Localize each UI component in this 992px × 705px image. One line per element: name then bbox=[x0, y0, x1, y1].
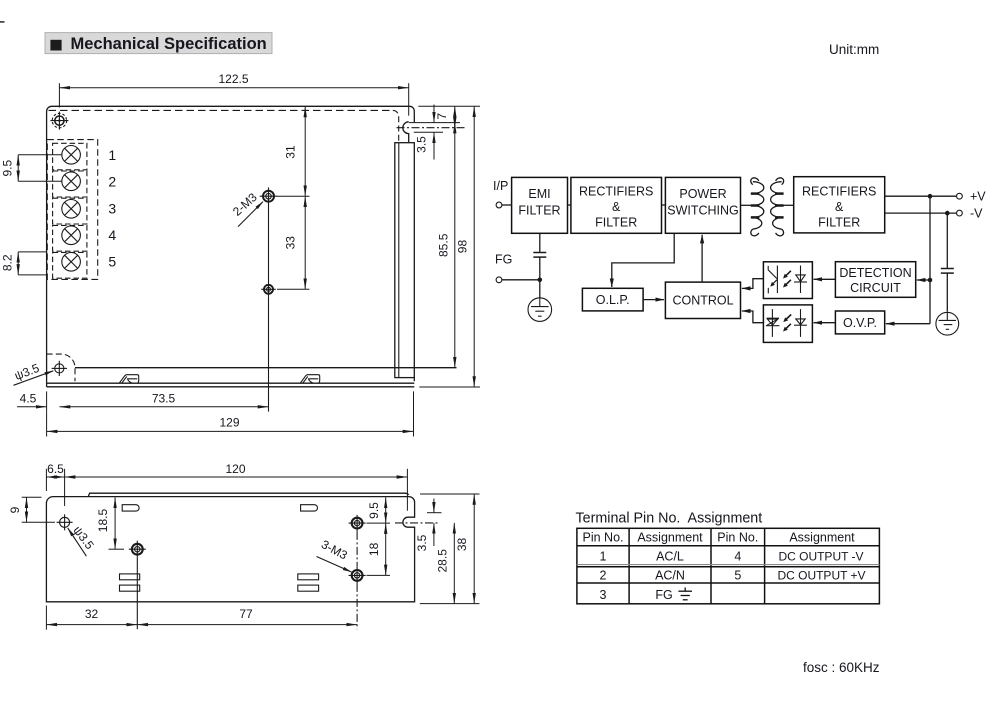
wire detection to opto1 bbox=[814, 278, 836, 280]
slot upper-right bbox=[301, 505, 318, 511]
right flange (top view) bbox=[395, 143, 415, 382]
svg-text:3: 3 bbox=[108, 200, 116, 216]
FG earth symbol in table bbox=[678, 588, 692, 600]
dim 6.5 bbox=[46, 462, 64, 506]
svg-text:CONTROL: CONTROL bbox=[672, 294, 733, 308]
svg-text:32: 32 bbox=[85, 607, 99, 621]
dim 32 bbox=[46, 606, 137, 630]
3-M3 label + leader bbox=[317, 537, 352, 572]
svg-text:18: 18 bbox=[367, 542, 381, 556]
svg-text:Assignment: Assignment bbox=[637, 531, 703, 545]
terminal block outer dashed bbox=[47, 140, 97, 280]
svg-text:FILTER: FILTER bbox=[595, 215, 637, 229]
svg-text:7: 7 bbox=[435, 113, 449, 120]
extension line below B1 bbox=[136, 558, 138, 630]
svg-text:98: 98 bbox=[456, 240, 470, 254]
svg-text:4: 4 bbox=[734, 549, 741, 563]
section header bar bbox=[45, 33, 272, 54]
wire +V output bbox=[885, 195, 957, 197]
wire OLP to CONTROL bbox=[643, 299, 664, 301]
ground symbol (FG) bbox=[528, 298, 552, 322]
svg-text:Unit:mm: Unit:mm bbox=[829, 42, 879, 57]
wire PS to transformer bbox=[741, 204, 753, 206]
block U6 CONTROL bbox=[665, 282, 740, 318]
centerline B2-B3 bbox=[356, 532, 358, 567]
dim 31 / 33 vertical line bbox=[277, 107, 310, 290]
slot pair lower-left bbox=[120, 574, 140, 580]
svg-text:FG: FG bbox=[655, 588, 672, 602]
slot pair lower-right bbox=[298, 574, 319, 580]
svg-text:+V: +V bbox=[970, 190, 986, 204]
block U3 POWER SWITCHING bbox=[665, 177, 740, 233]
dim 9.5 (bottom view) bbox=[367, 497, 391, 523]
node junction +V bbox=[928, 194, 933, 199]
dim 9 bbox=[8, 497, 55, 522]
node junction FG bbox=[538, 278, 543, 283]
-V terminal bbox=[957, 207, 984, 221]
wire rectifiers to power switching bbox=[662, 204, 666, 206]
svg-text:122.5: 122.5 bbox=[218, 72, 248, 86]
wire PS to OLP bbox=[612, 233, 674, 287]
wire into detection circuit bbox=[917, 279, 930, 281]
svg-text:120: 120 bbox=[225, 462, 245, 476]
svg-text:EMI: EMI bbox=[528, 187, 550, 201]
capacitor C-out bbox=[941, 269, 954, 274]
terminal numbers bbox=[108, 147, 116, 269]
table header bbox=[583, 531, 856, 545]
dim 129 bbox=[47, 391, 414, 436]
svg-text:DETECTION: DETECTION bbox=[839, 266, 911, 280]
svg-text:85.5: 85.5 bbox=[436, 233, 450, 257]
chassis dashed lip line bbox=[49, 109, 393, 111]
row1 upper gray rule bbox=[577, 564, 880, 566]
back flange lip bbox=[88, 493, 408, 496]
bottom view case outline bbox=[46, 497, 414, 602]
table row 1 bbox=[600, 549, 864, 563]
ground symbol (output) bbox=[936, 312, 959, 335]
slot upper-left bbox=[122, 505, 139, 511]
svg-text:Pin No.: Pin No. bbox=[583, 531, 624, 545]
svg-text:AC/L: AC/L bbox=[656, 549, 684, 563]
optocoupler PC2 LED bbox=[794, 309, 807, 337]
optocoupler PC1 LED bbox=[794, 266, 807, 294]
centerline below B3 bbox=[356, 584, 358, 629]
I/P terminal bbox=[493, 179, 508, 208]
table row 3 bbox=[600, 588, 673, 602]
optocoupler PC1 box bbox=[763, 262, 812, 299]
svg-text:5: 5 bbox=[108, 253, 116, 269]
dim 7 bbox=[418, 106, 480, 128]
screw hole B2 bbox=[349, 515, 366, 532]
svg-text:4.5: 4.5 bbox=[20, 392, 37, 406]
transformer T1 secondary winding bbox=[771, 178, 784, 236]
optocoupler PC2 light arrows bbox=[783, 314, 791, 331]
dim 9.5 (terminal pitch) bbox=[0, 155, 62, 182]
wire -V output bbox=[885, 212, 957, 214]
capacitor C-out lower lead bbox=[946, 274, 948, 312]
capacitor C-Y bbox=[533, 253, 546, 258]
dim 28.5 bbox=[420, 523, 480, 604]
svg-text:9.5: 9.5 bbox=[367, 502, 381, 519]
svg-text:POWER: POWER bbox=[679, 187, 726, 201]
svg-text:2: 2 bbox=[108, 174, 116, 190]
svg-text:9: 9 bbox=[8, 506, 22, 513]
svg-text:&: & bbox=[835, 200, 844, 214]
svg-text:FILTER: FILTER bbox=[518, 204, 560, 218]
wire transformer to rectifiers2 bbox=[782, 204, 794, 206]
centerline between holes bbox=[268, 205, 270, 282]
svg-text:3: 3 bbox=[600, 588, 607, 602]
svg-text:4: 4 bbox=[108, 227, 116, 243]
svg-text:8.2: 8.2 bbox=[0, 254, 14, 271]
wire +V sense down to detection/ovp bbox=[929, 196, 931, 324]
node junction at detection bbox=[928, 278, 933, 283]
svg-text:77: 77 bbox=[239, 607, 253, 621]
svg-text:9.5: 9.5 bbox=[0, 160, 14, 177]
dim 8.2 bbox=[0, 252, 46, 275]
dim 18.5 bbox=[96, 497, 124, 549]
svg-text:DC OUTPUT -V: DC OUTPUT -V bbox=[778, 549, 863, 563]
svg-text:Pin No.: Pin No. bbox=[717, 531, 758, 545]
svg-text:-V: -V bbox=[970, 207, 983, 221]
FG terminal bbox=[495, 253, 512, 283]
block U8 O.V.P. bbox=[835, 311, 884, 334]
dim 98 bbox=[419, 106, 480, 387]
svg-text:18.5: 18.5 bbox=[96, 508, 110, 532]
mounting hole lower bbox=[261, 282, 276, 297]
2-M3 label + leader bbox=[230, 190, 263, 227]
svg-text:CIRCUIT: CIRCUIT bbox=[850, 281, 901, 295]
svg-text:RECTIFIERS: RECTIFIERS bbox=[802, 185, 876, 199]
optocoupler PC1 light arrows bbox=[783, 271, 791, 288]
optocoupler PC1 phototransistor bbox=[768, 266, 777, 294]
notch centerline bbox=[395, 522, 438, 524]
capacitor C-Y lower lead bbox=[539, 258, 541, 298]
dim 3.5 (bottom view) bbox=[415, 499, 442, 552]
svg-text:6.5: 6.5 bbox=[47, 462, 64, 476]
block U2 RECTIFIERS & FILTER (input) bbox=[571, 177, 662, 233]
dim 18 bbox=[367, 523, 391, 575]
bottom-left ear + mounting hole bbox=[47, 354, 75, 381]
dim 4.5 bbox=[17, 391, 47, 411]
dim 73.5 bbox=[60, 392, 269, 407]
svg-text:1: 1 bbox=[600, 549, 607, 563]
svg-text:O.L.P.: O.L.P. bbox=[596, 293, 630, 307]
dim 77 bbox=[137, 607, 357, 625]
svg-text:Assignment: Assignment bbox=[789, 531, 855, 545]
svg-text:3.5: 3.5 bbox=[414, 136, 428, 153]
block U4 RECTIFIERS & FILTER (output) bbox=[794, 177, 885, 233]
svg-text:5: 5 bbox=[734, 568, 741, 582]
centerline through keyhole bbox=[397, 127, 466, 129]
svg-text:RECTIFIERS: RECTIFIERS bbox=[579, 185, 653, 199]
wire opto2 to CONTROL bbox=[742, 311, 764, 323]
table row 2 bbox=[600, 568, 866, 582]
left mounting hole (bottom view) bbox=[57, 514, 73, 530]
svg-text:38: 38 bbox=[455, 538, 469, 552]
top view case outline bbox=[47, 106, 457, 381]
screw hole B3 bbox=[349, 567, 366, 584]
svg-text:&: & bbox=[612, 200, 621, 214]
block U5 O.L.P. bbox=[582, 288, 643, 311]
svg-text:AC/N: AC/N bbox=[655, 568, 685, 582]
dim 38 bbox=[420, 494, 480, 604]
dim 120 bbox=[65, 462, 408, 511]
node junction -V bbox=[945, 211, 950, 216]
terminal screws 1-5 bbox=[62, 146, 81, 272]
svg-text:SWITCHING: SWITCHING bbox=[667, 204, 739, 218]
svg-text:31: 31 bbox=[284, 145, 298, 159]
optocoupler PC2 photo-SCR bbox=[766, 309, 780, 337]
dim 122.5 bbox=[59, 72, 408, 116]
foot tab left bbox=[119, 375, 139, 384]
dim 85.5 bbox=[436, 123, 455, 368]
wire OVP to opto2 bbox=[814, 322, 836, 324]
block U1 EMI FILTER bbox=[512, 177, 568, 233]
table grid bbox=[577, 528, 880, 604]
svg-text:O.V.P.: O.V.P. bbox=[843, 316, 877, 330]
wire EMI to rectifiers bbox=[568, 204, 571, 206]
page edge dash bbox=[0, 21, 5, 23]
optocoupler PC2 box bbox=[763, 305, 812, 343]
centerline hole to 73.5 dim bbox=[268, 297, 270, 412]
wire I/P to EMI bbox=[502, 204, 512, 206]
base plate (top view) bbox=[47, 381, 415, 387]
svg-text:FILTER: FILTER bbox=[818, 215, 860, 229]
psi3.5 label + leader (top view) bbox=[13, 361, 54, 386]
psi3.5 label + leader (bottom view) bbox=[68, 523, 97, 556]
dim 3.5 (top view) bbox=[409, 105, 460, 160]
wire CONTROL to PS bbox=[701, 235, 703, 282]
+V terminal bbox=[957, 190, 987, 204]
capacitor C-out lead bbox=[946, 213, 948, 268]
svg-text:33: 33 bbox=[284, 236, 298, 250]
block U7 DETECTION CIRCUIT bbox=[835, 262, 915, 298]
wire opto1 to CONTROL bbox=[742, 279, 764, 289]
corner screw (top-left) bbox=[50, 112, 68, 130]
transformer T1 primary winding bbox=[751, 178, 764, 236]
mounting hole 2-M3 upper bbox=[260, 187, 278, 205]
svg-text:fosc : 60KHz: fosc : 60KHz bbox=[803, 660, 880, 675]
svg-text:Mechanical Specification: Mechanical Specification bbox=[71, 35, 267, 53]
terminal block cells dashed bbox=[53, 143, 87, 278]
wire FG to junction bbox=[502, 279, 540, 281]
top view bottom edge bbox=[75, 367, 457, 369]
svg-text:129: 129 bbox=[219, 416, 239, 430]
foot tab right bbox=[300, 375, 320, 384]
svg-text:I/P: I/P bbox=[493, 179, 508, 193]
svg-text:73.5: 73.5 bbox=[152, 392, 176, 406]
svg-text:FG: FG bbox=[495, 253, 512, 267]
svg-text:3.5: 3.5 bbox=[415, 534, 429, 551]
svg-text:28.5: 28.5 bbox=[435, 549, 449, 573]
svg-text:DC OUTPUT +V: DC OUTPUT +V bbox=[777, 568, 865, 582]
svg-text:Terminal Pin No. Assignment: Terminal Pin No. Assignment bbox=[576, 511, 763, 527]
svg-text:2: 2 bbox=[600, 568, 607, 582]
capacitor C-Y lead from EMI bbox=[539, 233, 541, 252]
svg-text:1: 1 bbox=[108, 147, 116, 163]
screw hole B1 bbox=[129, 541, 146, 558]
wire into OVP bbox=[886, 323, 930, 325]
